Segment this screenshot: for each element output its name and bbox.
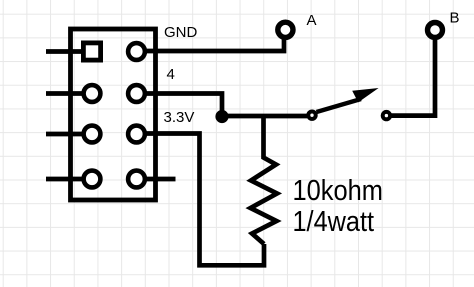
wire: right stub pin row 4 (137, 177, 176, 182)
wire: GND net from pin to terminal A (137, 38, 285, 51)
switch SW1 left contact (308, 112, 315, 119)
junction node (GPIO4 / switch / resistor) (215, 110, 228, 123)
svg-text:1/4watt: 1/4watt (293, 206, 375, 238)
switch SW1 lever (317, 99, 362, 112)
wire: 3.3V net down and along bottom to resistor (137, 134, 265, 266)
wire: junction to switch left contact (222, 114, 307, 119)
pin row3 left (84, 126, 101, 143)
svg-text:B: B (450, 9, 460, 26)
switch SW1 arrowhead (352, 88, 378, 102)
switch SW1 right contact (383, 112, 390, 119)
svg-text:4: 4 (167, 66, 175, 83)
wire: left stub pin row 2 (46, 91, 92, 96)
connector body (8-pin header) (71, 29, 156, 200)
svg-text:GND: GND (164, 24, 198, 41)
pin 1 (square pad) (83, 43, 100, 60)
pin row4 left (84, 171, 101, 188)
wire: GPIO4 net from pin down to junction (137, 94, 223, 117)
terminal B ring (428, 23, 443, 38)
pin row2 left (84, 85, 101, 102)
svg-text:10kohm: 10kohm (293, 175, 384, 207)
wire: left stub pin row 4 (46, 177, 92, 182)
pin row1 right (GND) (128, 43, 145, 60)
wire: left stub pin row 1 (46, 49, 92, 54)
terminal A ring (278, 22, 293, 37)
svg-text:3.3V: 3.3V (164, 109, 195, 126)
svg-text:A: A (307, 12, 317, 29)
resistor R1 10kohm (251, 116, 278, 244)
pin row4 right (128, 171, 145, 188)
pin row3 right (3.3V) (128, 126, 145, 143)
wire: switch right contact to terminal B (389, 40, 435, 116)
pin row2 right (GPIO 4) (128, 85, 145, 102)
wire: left stub pin row 3 (46, 132, 92, 137)
